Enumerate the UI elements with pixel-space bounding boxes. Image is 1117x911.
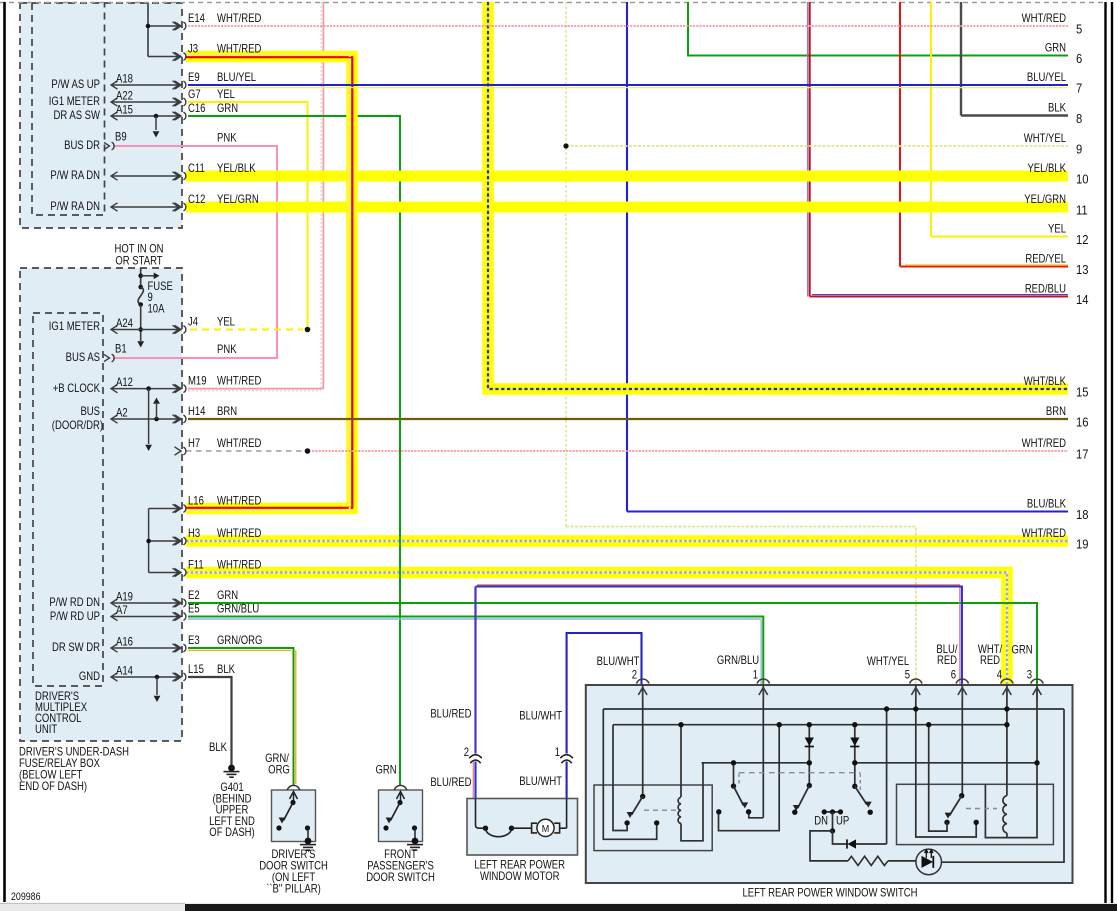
svg-text:7: 7 bbox=[1076, 81, 1082, 96]
svg-text:IG1 METER: IG1 METER bbox=[49, 320, 101, 333]
svg-text:RED/YEL: RED/YEL bbox=[1025, 253, 1066, 266]
svg-text:E14: E14 bbox=[188, 12, 205, 25]
svg-text:GRN: GRN bbox=[217, 102, 238, 115]
svg-text:L15: L15 bbox=[188, 663, 204, 676]
svg-text:2: 2 bbox=[632, 669, 637, 682]
svg-text:LEFT REAR POWER WINDOW SWITCH: LEFT REAR POWER WINDOW SWITCH bbox=[742, 887, 917, 900]
svg-text:5: 5 bbox=[1076, 22, 1082, 37]
svg-text:(DOOR/DR): (DOOR/DR) bbox=[52, 419, 103, 432]
svg-text:A24: A24 bbox=[116, 317, 133, 330]
svg-text:A19: A19 bbox=[116, 591, 133, 604]
svg-text:OR START: OR START bbox=[115, 255, 163, 268]
svg-text:J3: J3 bbox=[188, 42, 198, 55]
svg-text:E9: E9 bbox=[188, 71, 200, 84]
svg-text:WHT/RED: WHT/RED bbox=[217, 527, 262, 540]
svg-text:BRN: BRN bbox=[1046, 405, 1066, 418]
svg-text:H7: H7 bbox=[188, 437, 200, 450]
svg-text:IG1 METER: IG1 METER bbox=[49, 95, 101, 108]
svg-text:WINDOW MOTOR: WINDOW MOTOR bbox=[480, 870, 560, 883]
svg-text:WHT/YEL: WHT/YEL bbox=[867, 655, 909, 668]
svg-text:H14: H14 bbox=[188, 405, 206, 418]
svg-text:YEL: YEL bbox=[217, 88, 235, 101]
svg-text:3: 3 bbox=[1027, 669, 1032, 682]
svg-text:+B CLOCK: +B CLOCK bbox=[53, 382, 100, 395]
svg-text:16: 16 bbox=[1076, 415, 1089, 430]
svg-text:BLK: BLK bbox=[217, 663, 235, 676]
svg-text:WHT/RED: WHT/RED bbox=[217, 42, 262, 55]
svg-text:BRN: BRN bbox=[217, 405, 237, 418]
svg-text:ORG: ORG bbox=[268, 764, 290, 777]
svg-text:M19: M19 bbox=[188, 375, 207, 388]
svg-text:UNIT: UNIT bbox=[35, 723, 58, 736]
svg-text:GRN/BLU: GRN/BLU bbox=[717, 654, 759, 667]
svg-text:BLU/BLK: BLU/BLK bbox=[1027, 498, 1066, 511]
svg-text:PNK: PNK bbox=[217, 343, 237, 356]
svg-text:B9: B9 bbox=[115, 131, 127, 144]
svg-text:6: 6 bbox=[1076, 51, 1082, 66]
svg-text:11: 11 bbox=[1076, 203, 1088, 218]
svg-text:DR SW DR: DR SW DR bbox=[52, 641, 100, 654]
svg-text:A14: A14 bbox=[116, 665, 133, 678]
svg-text:``B" PILLAR): ``B" PILLAR) bbox=[266, 883, 321, 896]
svg-text:M: M bbox=[542, 823, 550, 835]
svg-text:17: 17 bbox=[1076, 447, 1089, 462]
svg-text:P/W RA DN: P/W RA DN bbox=[50, 169, 100, 182]
svg-text:DN: DN bbox=[814, 815, 828, 828]
svg-text:UP: UP bbox=[836, 815, 849, 828]
svg-text:BUS DR: BUS DR bbox=[64, 139, 100, 152]
svg-text:BLU/WHT: BLU/WHT bbox=[519, 710, 562, 723]
svg-text:J4: J4 bbox=[188, 315, 198, 328]
svg-text:A15: A15 bbox=[116, 104, 133, 117]
svg-text:GRN: GRN bbox=[375, 764, 396, 777]
svg-text:1: 1 bbox=[555, 746, 560, 759]
svg-text:BLU/YEL: BLU/YEL bbox=[217, 71, 256, 84]
svg-text:10: 10 bbox=[1076, 172, 1089, 187]
svg-text:A7: A7 bbox=[116, 604, 128, 617]
svg-text:GRN: GRN bbox=[1011, 644, 1032, 657]
svg-text:WHT/RED: WHT/RED bbox=[217, 558, 262, 571]
svg-text:10A: 10A bbox=[148, 303, 166, 316]
svg-text:RED: RED bbox=[980, 654, 1000, 667]
svg-text:YEL/GRN: YEL/GRN bbox=[1024, 193, 1066, 206]
svg-text:2: 2 bbox=[464, 746, 469, 759]
svg-text:BLU/RED: BLU/RED bbox=[430, 776, 471, 789]
svg-text:DOOR SWITCH: DOOR SWITCH bbox=[366, 871, 435, 884]
svg-text:E2: E2 bbox=[188, 589, 200, 602]
svg-text:END OF DASH): END OF DASH) bbox=[19, 780, 87, 793]
svg-text:18: 18 bbox=[1076, 507, 1089, 522]
svg-text:G7: G7 bbox=[188, 88, 201, 101]
svg-text:6: 6 bbox=[951, 669, 956, 682]
svg-text:9: 9 bbox=[1076, 142, 1082, 157]
svg-text:BLU/WHT: BLU/WHT bbox=[597, 655, 640, 668]
svg-text:A16: A16 bbox=[116, 636, 133, 649]
svg-text:WHT/RED: WHT/RED bbox=[1022, 527, 1067, 540]
svg-text:YEL/BLK: YEL/BLK bbox=[217, 162, 256, 175]
svg-text:RED: RED bbox=[937, 654, 957, 667]
svg-text:WHT/YEL: WHT/YEL bbox=[1024, 132, 1066, 145]
svg-text:A12: A12 bbox=[116, 376, 133, 389]
svg-text:YEL: YEL bbox=[1048, 223, 1066, 236]
svg-text:C16: C16 bbox=[188, 102, 206, 115]
svg-text:GRN/BLU: GRN/BLU bbox=[217, 602, 259, 615]
svg-text:F11: F11 bbox=[188, 558, 204, 571]
svg-text:A18: A18 bbox=[116, 73, 133, 86]
svg-text:12: 12 bbox=[1076, 232, 1089, 247]
svg-text:BUS AS: BUS AS bbox=[66, 351, 100, 364]
svg-text:19: 19 bbox=[1076, 537, 1089, 552]
svg-text:BUS: BUS bbox=[80, 405, 100, 418]
svg-text:BLU/YEL: BLU/YEL bbox=[1027, 71, 1066, 84]
svg-text:BLK: BLK bbox=[1048, 102, 1066, 115]
svg-text:YEL: YEL bbox=[217, 315, 235, 328]
svg-text:P/W RA DN: P/W RA DN bbox=[50, 200, 100, 213]
svg-text:8: 8 bbox=[1076, 111, 1082, 126]
svg-text:PNK: PNK bbox=[217, 132, 237, 145]
svg-text:WHT/RED: WHT/RED bbox=[217, 437, 262, 450]
svg-text:GRN/ORG: GRN/ORG bbox=[217, 634, 262, 647]
svg-text:5: 5 bbox=[905, 669, 910, 682]
svg-text:BLU/WHT: BLU/WHT bbox=[519, 775, 562, 788]
svg-text:15: 15 bbox=[1076, 385, 1089, 400]
svg-text:A22: A22 bbox=[116, 90, 133, 103]
svg-text:A2: A2 bbox=[116, 407, 128, 420]
svg-text:WHT/RED: WHT/RED bbox=[217, 494, 262, 507]
svg-text:YEL/BLK: YEL/BLK bbox=[1027, 162, 1066, 175]
svg-text:H3: H3 bbox=[188, 527, 200, 540]
svg-text:13: 13 bbox=[1076, 262, 1089, 277]
svg-text:1: 1 bbox=[753, 669, 758, 682]
svg-text:4: 4 bbox=[997, 669, 1002, 682]
svg-text:E3: E3 bbox=[188, 634, 200, 647]
svg-text:RED/BLU: RED/BLU bbox=[1025, 283, 1066, 296]
svg-text:B1: B1 bbox=[115, 343, 127, 356]
svg-text:WHT/BLK: WHT/BLK bbox=[1024, 375, 1066, 388]
svg-text:C12: C12 bbox=[188, 193, 206, 206]
svg-text:GRN: GRN bbox=[217, 589, 238, 602]
svg-text:WHT/RED: WHT/RED bbox=[217, 12, 262, 25]
svg-text:WHT/RED: WHT/RED bbox=[1022, 437, 1067, 450]
svg-text:GND: GND bbox=[79, 670, 100, 683]
svg-text:C11: C11 bbox=[188, 162, 205, 175]
svg-text:GRN: GRN bbox=[1045, 42, 1066, 55]
svg-text:P/W RD UP: P/W RD UP bbox=[50, 610, 100, 623]
svg-text:P/W RD DN: P/W RD DN bbox=[49, 596, 100, 609]
svg-text:DR AS SW: DR AS SW bbox=[54, 109, 100, 122]
svg-text:BLU/RED: BLU/RED bbox=[430, 708, 471, 721]
svg-text:P/W AS UP: P/W AS UP bbox=[51, 78, 100, 91]
svg-text:OF DASH): OF DASH) bbox=[209, 826, 254, 839]
svg-text:E5: E5 bbox=[188, 602, 200, 615]
svg-text:WHT/RED: WHT/RED bbox=[217, 375, 262, 388]
svg-text:YEL/GRN: YEL/GRN bbox=[217, 193, 259, 206]
svg-text:WHT/RED: WHT/RED bbox=[1022, 12, 1067, 25]
svg-text:209986: 209986 bbox=[11, 891, 41, 903]
svg-text:14: 14 bbox=[1076, 292, 1089, 307]
svg-text:L16: L16 bbox=[188, 494, 204, 507]
svg-text:BLK: BLK bbox=[209, 741, 227, 754]
